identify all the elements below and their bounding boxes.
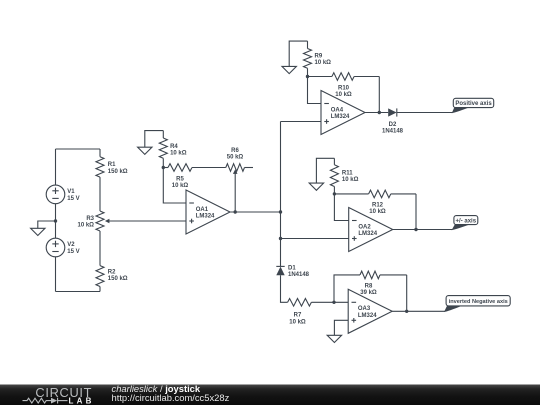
wire OA1 output	[230, 211, 281, 213]
flag inverted Negative axis	[444, 296, 510, 312]
svg-text:15 V: 15 V	[67, 249, 79, 255]
svg-text:R8: R8	[365, 284, 373, 290]
svg-text:10 kΩ: 10 kΩ	[369, 209, 386, 215]
svg-text:10 kΩ: 10 kΩ	[289, 320, 306, 326]
wire R11 junction to OA2 - input	[334, 194, 348, 221]
op-amp OA4	[321, 91, 365, 135]
wire bottom-left horizontal	[56, 291, 101, 293]
node OA3 feedback on output	[405, 310, 408, 313]
svg-text:R2: R2	[108, 270, 116, 276]
ground above R4	[138, 131, 164, 155]
wire bus to OA4 + input	[281, 121, 322, 123]
svg-text:150 kΩ: 150 kΩ	[108, 169, 128, 175]
svg-text:D2: D2	[389, 122, 397, 128]
svg-text:OA2: OA2	[358, 224, 371, 230]
node V1-V2 junction	[54, 219, 57, 222]
svg-text:http://circuitlab.com/cc5x28z: http://circuitlab.com/cc5x28z	[112, 392, 230, 403]
svg-text:1N4148: 1N4148	[288, 272, 310, 278]
svg-text:1N4148: 1N4148	[382, 128, 404, 134]
node OA1 output on bus	[279, 210, 282, 213]
wire bus to OA2 + input	[281, 238, 349, 240]
CircuitLab logo	[23, 385, 95, 405]
resistor R7	[288, 299, 349, 326]
resistor R12	[334, 190, 416, 215]
svg-text:LAB: LAB	[69, 396, 95, 405]
svg-text:D1: D1	[288, 266, 296, 272]
svg-text:10 kΩ: 10 kΩ	[335, 92, 352, 98]
resistor R9	[304, 41, 332, 76]
resistor R11	[330, 158, 358, 194]
svg-text:inverted Negative axis: inverted Negative axis	[449, 299, 508, 305]
footer title text	[112, 383, 230, 403]
diode D2	[382, 108, 404, 134]
node OA2 feedback on output	[414, 228, 417, 231]
svg-text:R1: R1	[108, 162, 116, 168]
flag +/- axis	[452, 216, 478, 231]
resistor R4	[159, 131, 186, 168]
svg-text:LM324: LM324	[331, 114, 350, 120]
svg-text:LM324: LM324	[358, 313, 377, 319]
svg-text:R10: R10	[338, 86, 350, 92]
wire R8 to output node	[406, 275, 408, 311]
svg-text:10 kΩ: 10 kΩ	[170, 151, 187, 157]
node OA4 feedback on output	[378, 111, 381, 114]
op-amp OA1	[186, 190, 230, 234]
svg-text:LM324: LM324	[196, 214, 215, 220]
svg-text:10 kΩ: 10 kΩ	[342, 177, 359, 183]
diode D1	[276, 266, 309, 279]
wire left rail to V1	[55, 149, 57, 185]
wire bus upper segment	[280, 122, 282, 213]
node R4-R5 junction	[162, 166, 165, 169]
svg-text:Positive axis: Positive axis	[455, 101, 492, 107]
svg-text:10 kΩ: 10 kΩ	[315, 60, 332, 66]
svg-text:10 kΩ: 10 kΩ	[78, 222, 95, 228]
svg-text:R9: R9	[315, 53, 323, 59]
svg-text:150 kΩ: 150 kΩ	[108, 276, 128, 282]
node R7-R8 junction	[332, 301, 335, 304]
wire R3 wiper to OA1 + input	[109, 220, 187, 222]
resistor R8	[360, 271, 407, 296]
wire R7 junction to R8	[334, 275, 360, 302]
ground at OA3 + input	[327, 335, 341, 342]
svg-text:R3: R3	[86, 216, 94, 222]
svg-text:50 kΩ: 50 kΩ	[227, 155, 244, 161]
wire D2 to Positive axis flag	[397, 112, 453, 114]
svg-text:V1: V1	[67, 189, 75, 195]
svg-text:R7: R7	[294, 313, 302, 319]
svg-text:R12: R12	[372, 202, 384, 208]
wire R10 to output node	[378, 77, 380, 113]
svg-text:OA1: OA1	[196, 207, 209, 213]
wire top-left horizontal	[56, 148, 101, 150]
svg-text:39 kΩ: 39 kΩ	[360, 290, 377, 296]
ground near V2	[31, 221, 56, 236]
svg-text:10 kΩ: 10 kΩ	[172, 183, 189, 189]
node R6 wiper on output	[234, 210, 237, 213]
voltage source V1	[46, 185, 79, 204]
wire R12 to output node	[415, 194, 417, 230]
voltage source V2	[46, 238, 79, 257]
potentiometer R6	[226, 148, 253, 212]
resistor R2	[96, 266, 128, 292]
op-amp OA2	[349, 208, 393, 252]
wire OA4 output to D2	[365, 112, 388, 114]
wire R9 junction to OA4 - input	[308, 77, 322, 104]
svg-text:+/- axis: +/- axis	[456, 218, 477, 224]
resistor R1	[96, 149, 128, 177]
wire R4 junction to OA1 - input	[163, 168, 186, 204]
wire OA2 output	[393, 229, 453, 231]
wire OA3 output	[392, 310, 445, 312]
svg-text:R11: R11	[342, 170, 353, 176]
node R9-R10 junction	[306, 75, 309, 78]
svg-text:15 V: 15 V	[67, 196, 79, 202]
potentiometer R3	[78, 177, 110, 266]
svg-text:OA3: OA3	[358, 306, 371, 312]
wire V1 to ground node	[55, 204, 57, 221]
svg-text:R6: R6	[231, 148, 239, 154]
wire OA3 + input to ground	[334, 320, 348, 335]
resistor R5	[163, 164, 226, 189]
svg-text:OA4: OA4	[331, 107, 344, 113]
wire bus middle segment	[280, 212, 282, 266]
node R11-R12 junction	[333, 192, 336, 195]
wire bus lower segment	[281, 275, 288, 302]
ground above R11	[309, 158, 334, 190]
wire V2 to bottom rail	[55, 257, 57, 292]
svg-text:R5: R5	[176, 177, 184, 183]
resistor R10	[308, 73, 380, 99]
op-amp OA3	[348, 289, 392, 333]
footer bar	[0, 385, 540, 405]
node bus OA2+	[279, 237, 282, 240]
flag Positive axis	[452, 98, 494, 113]
svg-text:R4: R4	[170, 144, 178, 150]
ground above R9	[282, 41, 308, 74]
svg-text:V2: V2	[67, 242, 75, 248]
wire node to V2	[55, 221, 57, 239]
svg-text:LM324: LM324	[358, 231, 377, 237]
